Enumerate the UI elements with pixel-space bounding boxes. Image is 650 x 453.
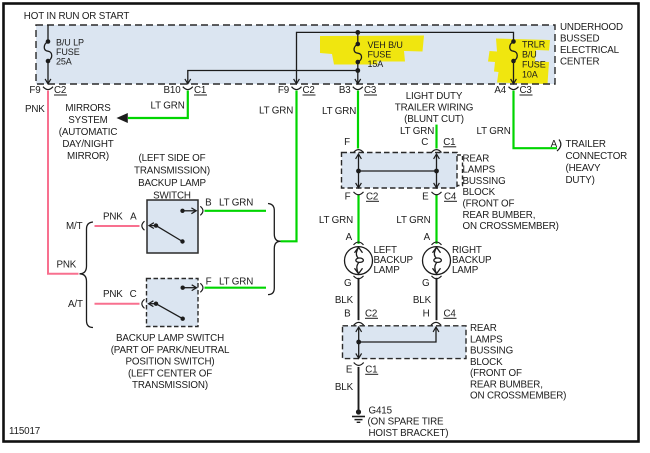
svg-text:F: F <box>206 276 212 287</box>
svg-text:G: G <box>344 278 351 289</box>
svg-text:DUTY): DUTY) <box>566 175 595 186</box>
svg-text:B3: B3 <box>339 85 351 96</box>
svg-text:LT GRN: LT GRN <box>477 126 511 137</box>
svg-text:LT GRN: LT GRN <box>219 276 253 287</box>
svg-text:BLOCK: BLOCK <box>470 357 503 368</box>
svg-text:G415: G415 <box>369 406 393 417</box>
svg-text:(AUTOMATIC: (AUTOMATIC <box>59 127 118 138</box>
svg-text:(BLUNT CUT): (BLUNT CUT) <box>404 114 464 125</box>
svg-text:POSITION SWITCH): POSITION SWITCH) <box>125 357 214 368</box>
svg-text:HOIST BRACKET): HOIST BRACKET) <box>369 428 449 439</box>
svg-text:115017: 115017 <box>9 426 40 437</box>
svg-text:CENTER: CENTER <box>560 57 599 68</box>
svg-text:PNK: PNK <box>103 212 123 223</box>
svg-text:REAR BUMBER,: REAR BUMBER, <box>463 210 536 221</box>
svg-text:REAR: REAR <box>463 153 490 164</box>
svg-text:A: A <box>346 232 353 243</box>
svg-text:F9: F9 <box>278 85 289 96</box>
svg-text:FUSE: FUSE <box>522 60 546 70</box>
svg-text:(LEFT SIDE OF: (LEFT SIDE OF <box>138 153 205 164</box>
svg-text:LT GRN: LT GRN <box>219 198 253 209</box>
svg-text:F: F <box>345 192 351 203</box>
svg-text:(LEFT CENTER OF: (LEFT CENTER OF <box>128 368 212 379</box>
svg-text:(ON SPARE TIRE: (ON SPARE TIRE <box>368 416 445 427</box>
svg-text:HOT IN RUN OR START: HOT IN RUN OR START <box>24 11 130 22</box>
svg-text:ON CROSSMEMBER): ON CROSSMEMBER) <box>470 391 566 402</box>
svg-text:BLK: BLK <box>335 382 354 393</box>
svg-text:(PART OF PARK/NEUTRAL: (PART OF PARK/NEUTRAL <box>111 345 230 356</box>
svg-text:C1: C1 <box>194 85 206 96</box>
svg-text:A: A <box>551 139 558 150</box>
svg-text:ON CROSSMEMBER): ON CROSSMEMBER) <box>463 221 559 232</box>
svg-text:(HEAVY: (HEAVY <box>566 163 601 174</box>
svg-text:BUSSING: BUSSING <box>470 346 513 357</box>
svg-text:B/U LP: B/U LP <box>56 38 84 48</box>
svg-text:VEH B/U: VEH B/U <box>368 40 403 50</box>
svg-text:ELECTRICAL: ELECTRICAL <box>560 45 620 56</box>
svg-text:E: E <box>346 365 353 376</box>
svg-text:M/T: M/T <box>66 221 83 232</box>
svg-text:TRANSMISSION): TRANSMISSION) <box>134 166 210 177</box>
svg-text:BUSSING: BUSSING <box>463 176 506 187</box>
svg-text:TRAILER: TRAILER <box>566 139 606 150</box>
svg-text:FUSE: FUSE <box>368 50 392 60</box>
svg-text:LT GRN: LT GRN <box>259 106 293 117</box>
svg-text:LAMP: LAMP <box>452 265 479 276</box>
svg-text:LIGHT DUTY: LIGHT DUTY <box>406 91 463 102</box>
svg-text:DAY/NIGHT: DAY/NIGHT <box>62 139 113 150</box>
svg-text:PNK: PNK <box>57 260 77 271</box>
svg-text:BLOCK: BLOCK <box>463 187 496 198</box>
svg-text:F: F <box>344 137 350 148</box>
svg-text:SWITCH: SWITCH <box>153 190 191 201</box>
svg-text:(FRONT OF: (FRONT OF <box>463 199 515 210</box>
svg-text:B10: B10 <box>164 85 182 96</box>
svg-text:LT GRN: LT GRN <box>319 215 353 226</box>
svg-text:A/T: A/T <box>68 299 83 310</box>
svg-text:A: A <box>424 232 431 243</box>
svg-text:TRAILER WIRING: TRAILER WIRING <box>395 103 473 114</box>
svg-text:LAMPS: LAMPS <box>463 165 496 176</box>
svg-text:C3: C3 <box>520 85 533 96</box>
svg-text:25A: 25A <box>56 57 72 67</box>
svg-text:B/U: B/U <box>522 50 537 60</box>
svg-text:C: C <box>130 289 137 300</box>
svg-text:BLK: BLK <box>335 295 354 306</box>
svg-text:BACKUP LAMP SWITCH: BACKUP LAMP SWITCH <box>116 333 224 344</box>
svg-text:C3: C3 <box>364 85 377 96</box>
svg-text:MIRROR): MIRROR) <box>67 151 109 162</box>
svg-text:BUSSED: BUSSED <box>560 34 599 45</box>
svg-text:B: B <box>344 309 351 320</box>
svg-text:LT GRN: LT GRN <box>322 106 356 117</box>
svg-text:C: C <box>421 137 428 148</box>
svg-text:REAR BUMBER,: REAR BUMBER, <box>470 379 543 390</box>
svg-text:BACKUP LAMP: BACKUP LAMP <box>138 178 206 189</box>
svg-text:LT GRN: LT GRN <box>151 101 185 112</box>
svg-text:MIRRORS: MIRRORS <box>65 103 111 114</box>
svg-text:PNK: PNK <box>25 104 45 115</box>
svg-text:LT GRN: LT GRN <box>396 215 430 226</box>
svg-text:10A: 10A <box>522 70 538 80</box>
svg-text:LAMPS: LAMPS <box>470 334 503 345</box>
svg-text:SYSTEM: SYSTEM <box>68 115 107 126</box>
svg-text:REAR: REAR <box>470 323 497 334</box>
svg-text:B: B <box>205 198 212 209</box>
svg-text:F9: F9 <box>29 85 40 96</box>
svg-text:E: E <box>422 192 429 203</box>
svg-text:C2: C2 <box>303 85 315 96</box>
svg-text:H: H <box>423 309 430 320</box>
svg-text:A4: A4 <box>494 85 506 96</box>
svg-text:C2: C2 <box>54 85 66 96</box>
svg-text:PNK: PNK <box>103 289 123 300</box>
svg-text:TRLR: TRLR <box>522 40 546 50</box>
svg-text:LAMP: LAMP <box>374 265 401 276</box>
svg-text:FUSE: FUSE <box>56 47 80 57</box>
svg-text:G: G <box>422 278 429 289</box>
svg-text:BLK: BLK <box>413 295 432 306</box>
svg-text:A: A <box>130 212 137 223</box>
svg-text:TRANSMISSION): TRANSMISSION) <box>132 380 208 391</box>
svg-text:UNDERHOOD: UNDERHOOD <box>560 22 623 33</box>
svg-text:(FRONT OF: (FRONT OF <box>470 368 522 379</box>
svg-text:CONNECTOR: CONNECTOR <box>566 151 628 162</box>
svg-text:LT GRN: LT GRN <box>400 126 434 137</box>
svg-text:15A: 15A <box>368 59 384 69</box>
